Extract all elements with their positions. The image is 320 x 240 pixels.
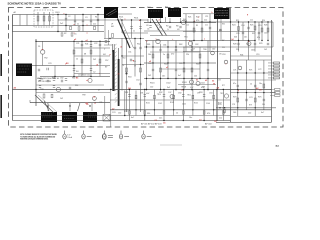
svg-text:4u7: 4u7 [261, 112, 264, 114]
svg-text:R53: R53 [128, 77, 131, 79]
svg-text:1k5: 1k5 [194, 75, 197, 77]
svg-text:R41: R41 [85, 43, 88, 45]
svg-text:F601: F601 [134, 18, 138, 20]
svg-text:470: 470 [207, 113, 210, 115]
svg-text:C81: C81 [40, 79, 43, 81]
svg-text:L601: L601 [43, 8, 47, 10]
svg-text:C106: C106 [206, 103, 210, 105]
svg-text:C92: C92 [178, 92, 181, 94]
svg-text:C62: C62 [195, 44, 198, 46]
svg-text:AP 401 AP 402 AP 403: AP 401 AP 402 AP 403 [141, 123, 162, 126]
svg-text:C18: C18 [222, 54, 225, 56]
svg-text:R25: R25 [250, 24, 253, 26]
svg-text:R21: R21 [188, 16, 191, 18]
svg-text:A0: A0 [14, 87, 16, 90]
svg-text:C8: C8 [146, 25, 148, 27]
svg-text:1n: 1n [163, 54, 165, 56]
svg-text:RESISTORS 1/2W UNLESS OTHERWIS: RESISTORS 1/2W UNLESS OTHERWISE NOTED. [20, 139, 48, 141]
svg-text:C104: C104 [182, 103, 186, 105]
svg-text:SCHEMATIC NOTES 12SA-1 CHASS: SCHEMATIC NOTES 12SA-1 CHASSIS TV [8, 1, 62, 5]
svg-text:C64: C64 [148, 63, 151, 65]
svg-text:h3: h3 [212, 80, 214, 82]
svg-text:R107: R107 [218, 103, 222, 105]
svg-text:R112: R112 [124, 111, 128, 113]
svg-text:TR9: TR9 [82, 95, 86, 97]
svg-text:2n2: 2n2 [219, 117, 222, 119]
svg-text:3n3: 3n3 [167, 87, 170, 89]
svg-text:c: c [125, 18, 126, 20]
svg-text:h2: h2 [205, 80, 207, 82]
svg-text:v2: v2 [93, 97, 95, 99]
svg-text:R77: R77 [222, 85, 225, 87]
svg-text:h1: h1 [196, 79, 198, 81]
svg-text:C85: C85 [99, 102, 102, 104]
svg-text:10n: 10n [147, 29, 150, 31]
svg-text:10k: 10k [148, 54, 151, 56]
svg-text:10n: 10n [244, 37, 247, 39]
svg-text:v1: v1 [86, 80, 88, 82]
svg-text:R79: R79 [249, 104, 252, 106]
svg-text:330: 330 [147, 113, 150, 115]
svg-text:C51: C51 [128, 52, 131, 54]
svg-text:R1: R1 [95, 16, 97, 18]
svg-text:22k: 22k [236, 49, 239, 51]
svg-text:C61: C61 [163, 44, 166, 46]
svg-text:601: 601 [103, 54, 106, 56]
svg-text:220: 220 [75, 85, 78, 87]
svg-text:100: 100 [212, 49, 215, 51]
svg-text:1n: 1n [133, 31, 135, 33]
svg-text:C13: C13 [236, 33, 239, 35]
svg-text:q2: q2 [86, 40, 88, 42]
svg-text:C17: C17 [246, 44, 249, 46]
svg-text:10n: 10n [162, 75, 165, 77]
svg-text:S601: S601 [119, 17, 123, 19]
svg-text:470: 470 [177, 29, 180, 31]
svg-text:R91: R91 [125, 92, 128, 94]
svg-text:2n2: 2n2 [93, 23, 96, 25]
svg-text:C19: C19 [256, 54, 259, 56]
svg-text:C504: C504 [200, 83, 205, 85]
svg-text:4u7: 4u7 [178, 75, 181, 77]
svg-text:R30: R30 [219, 30, 222, 32]
svg-text:3k3: 3k3 [234, 37, 237, 39]
svg-text:P42: P42 [165, 6, 168, 8]
svg-text:R82: R82 [72, 77, 75, 79]
svg-text:55V: 55V [219, 53, 222, 55]
svg-text:s: s [156, 38, 157, 40]
svg-text:4u7: 4u7 [131, 117, 134, 119]
svg-text:C111: C111 [112, 112, 116, 114]
svg-text:1n: 1n [77, 23, 79, 25]
svg-text:TR12: TR12 [220, 93, 224, 95]
svg-text:100: 100 [233, 112, 236, 114]
svg-text:r2: r2 [120, 47, 122, 49]
svg-text:C12: C12 [250, 20, 253, 22]
svg-text:C11: C11 [205, 25, 208, 27]
svg-text:R8: R8 [176, 26, 178, 28]
svg-text:C82: C82 [60, 78, 63, 80]
svg-text:B1: B1 [76, 78, 78, 80]
svg-text:47: 47 [124, 31, 126, 33]
svg-text:R27: R27 [252, 33, 255, 35]
svg-text:r3: r3 [118, 74, 120, 76]
svg-text:C78: C78 [232, 104, 235, 106]
svg-text:C502: C502 [166, 83, 171, 85]
svg-text:470: 470 [171, 54, 174, 56]
svg-text:47u: 47u [233, 83, 236, 85]
svg-text:C102: C102 [158, 103, 162, 105]
svg-text:C91: C91 [140, 92, 143, 94]
svg-text:1k: 1k [176, 113, 178, 115]
svg-text:C10: C10 [186, 24, 189, 26]
svg-text:22k: 22k [186, 54, 189, 56]
svg-text:2k2: 2k2 [93, 59, 96, 61]
svg-text:1k: 1k [250, 83, 252, 85]
svg-text:TR8: TR8 [40, 89, 44, 91]
svg-text:C94: C94 [209, 92, 212, 94]
svg-text:220: 220 [248, 112, 251, 114]
svg-text:R4: R4 [76, 71, 78, 73]
svg-text:TR7: TR7 [181, 87, 184, 89]
svg-text:22n: 22n [157, 29, 160, 31]
svg-text:1k: 1k [123, 65, 125, 67]
svg-text:1k: 1k [167, 29, 169, 31]
svg-text:601: 601 [111, 26, 114, 28]
svg-text:1k2: 1k2 [60, 98, 63, 100]
svg-text:C11: C11 [205, 16, 208, 18]
svg-text:R73: R73 [233, 97, 236, 99]
svg-text:C2: C2 [154, 120, 156, 122]
svg-text:C21: C21 [76, 43, 79, 45]
svg-text:TR10: TR10 [157, 94, 161, 96]
svg-text:C9: C9 [156, 25, 158, 27]
svg-text:C23: C23 [48, 63, 51, 65]
svg-text:R52: R52 [137, 44, 140, 46]
svg-text:100n: 100n [251, 49, 255, 51]
svg-text:68: 68 [84, 53, 86, 55]
svg-text:k2: k2 [232, 39, 234, 41]
svg-text:R75: R75 [258, 97, 261, 99]
svg-text:R503: R503 [182, 82, 187, 84]
svg-text:R28: R28 [233, 43, 236, 45]
svg-text:R29: R29 [259, 43, 262, 45]
svg-text:R105: R105 [194, 102, 198, 104]
svg-text:AP 404: AP 404 [205, 123, 212, 126]
svg-text:C54: C54 [136, 80, 139, 82]
svg-text:47k: 47k [257, 37, 260, 39]
svg-text:D1: D1 [38, 46, 40, 48]
svg-text:z: z [226, 63, 227, 65]
svg-text:C71: C71 [233, 70, 236, 72]
svg-text:R61: R61 [147, 44, 150, 46]
svg-text:150: 150 [118, 113, 121, 115]
svg-text:C5: C5 [163, 122, 165, 124]
svg-text:B3: B3 [66, 63, 68, 65]
svg-text:C74: C74 [249, 97, 252, 99]
svg-text:1k: 1k [76, 59, 78, 61]
svg-text:C80: C80 [262, 104, 265, 106]
svg-text:R24: R24 [232, 25, 235, 27]
svg-text:C65: C65 [179, 63, 182, 65]
svg-text:C2: C2 [93, 71, 95, 73]
svg-text:e: e [64, 13, 65, 15]
svg-text:C16: C16 [264, 33, 267, 35]
svg-text:x3: x3 [166, 67, 168, 69]
svg-text:10u: 10u [259, 83, 262, 85]
svg-text:2n2: 2n2 [60, 23, 63, 25]
svg-text:TR8: TR8 [202, 86, 205, 88]
svg-text:C3: C3 [199, 120, 201, 122]
svg-text:120: 120 [150, 87, 153, 89]
svg-text:2k2: 2k2 [148, 75, 151, 77]
svg-text:C20: C20 [222, 47, 225, 49]
svg-text:TR1: TR1 [184, 37, 188, 39]
svg-text:R501: R501 [150, 82, 155, 84]
svg-text:R64: R64 [164, 63, 167, 65]
svg-text:C7: C7 [112, 108, 114, 110]
svg-text:47: 47 [98, 89, 100, 91]
svg-text:1k2: 1k2 [264, 49, 267, 51]
svg-text:R7: R7 [166, 25, 168, 27]
svg-text:22n: 22n [159, 117, 162, 119]
svg-text:R26: R26 [264, 24, 267, 26]
svg-text:R81: R81 [52, 77, 55, 79]
svg-text:x2: x2 [149, 61, 151, 63]
svg-text:R92: R92 [159, 92, 162, 94]
svg-text:R54: R54 [123, 57, 126, 59]
svg-text:6.3V: 6.3V [67, 135, 70, 137]
svg-text:470: 470 [196, 20, 199, 22]
svg-text:C601: C601 [55, 12, 60, 14]
svg-text:R103: R103 [170, 102, 174, 104]
svg-text:C512 R513 C514: C512 R513 C514 [78, 74, 90, 76]
svg-text:R65: R65 [196, 63, 199, 65]
svg-text:R9: R9 [196, 25, 198, 27]
svg-text:C3: C3 [85, 17, 87, 19]
svg-text:10n: 10n [189, 117, 192, 119]
svg-text:TR11: TR11 [187, 94, 191, 96]
svg-text:R62: R62 [179, 44, 182, 46]
svg-text:C72: C72 [258, 69, 261, 71]
svg-text:C9: C9 [259, 90, 261, 92]
svg-text:2n2: 2n2 [204, 20, 207, 22]
svg-text:p2: p2 [74, 39, 76, 41]
svg-text:R71: R71 [249, 70, 252, 72]
svg-text:C2: C2 [68, 16, 70, 18]
svg-text:R2: R2 [64, 33, 66, 35]
svg-text:C22: C22 [94, 43, 97, 45]
svg-text:W1: W1 [222, 24, 225, 26]
svg-text:TR2: TR2 [44, 58, 48, 60]
svg-text:C6: C6 [86, 104, 88, 106]
svg-text:C15: C15 [258, 25, 261, 27]
svg-text:T401: T401 [147, 7, 151, 9]
svg-text:TR6: TR6 [203, 49, 207, 51]
svg-text:R101: R101 [146, 102, 150, 104]
